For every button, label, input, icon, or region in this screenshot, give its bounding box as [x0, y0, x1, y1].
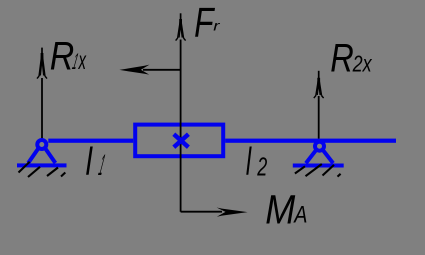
svg-text:l: l	[246, 141, 252, 184]
svg-text:R: R	[330, 37, 354, 81]
svg-text:A: A	[293, 202, 308, 229]
reaction arrow R1x (up)	[37, 48, 47, 139]
svg-text:l: l	[86, 141, 93, 184]
svg-text:2: 2	[257, 153, 268, 181]
reaction arrow R2x (up)	[314, 71, 324, 139]
force arrow Fr (up), open arrowhead	[176, 13, 186, 40]
right pin support: base line	[293, 164, 344, 168]
force arrow pointing left at mid height	[143, 69, 181, 71]
left pin support: base line	[17, 163, 67, 167]
right support hatching	[295, 164, 341, 177]
svg-text:r: r	[213, 19, 220, 34]
wire: beam left segment	[48, 139, 133, 143]
svg-text:2x: 2x	[352, 50, 373, 76]
node: X mark in section box	[174, 134, 189, 147]
left support hatching	[19, 162, 66, 177]
wire: central vertical force line	[180, 40, 182, 212]
wire: beam right segment	[225, 139, 396, 143]
right pin support: circle	[315, 142, 324, 151]
node: section box	[135, 125, 223, 157]
left pin support: legs	[28, 149, 55, 163]
svg-text:x: x	[78, 47, 87, 75]
moment arrow MA (right)	[181, 211, 222, 213]
svg-text:F: F	[194, 0, 215, 45]
svg-text:M: M	[265, 186, 296, 232]
left pin support: circle	[37, 140, 46, 149]
right pin support: legs	[306, 150, 333, 163]
